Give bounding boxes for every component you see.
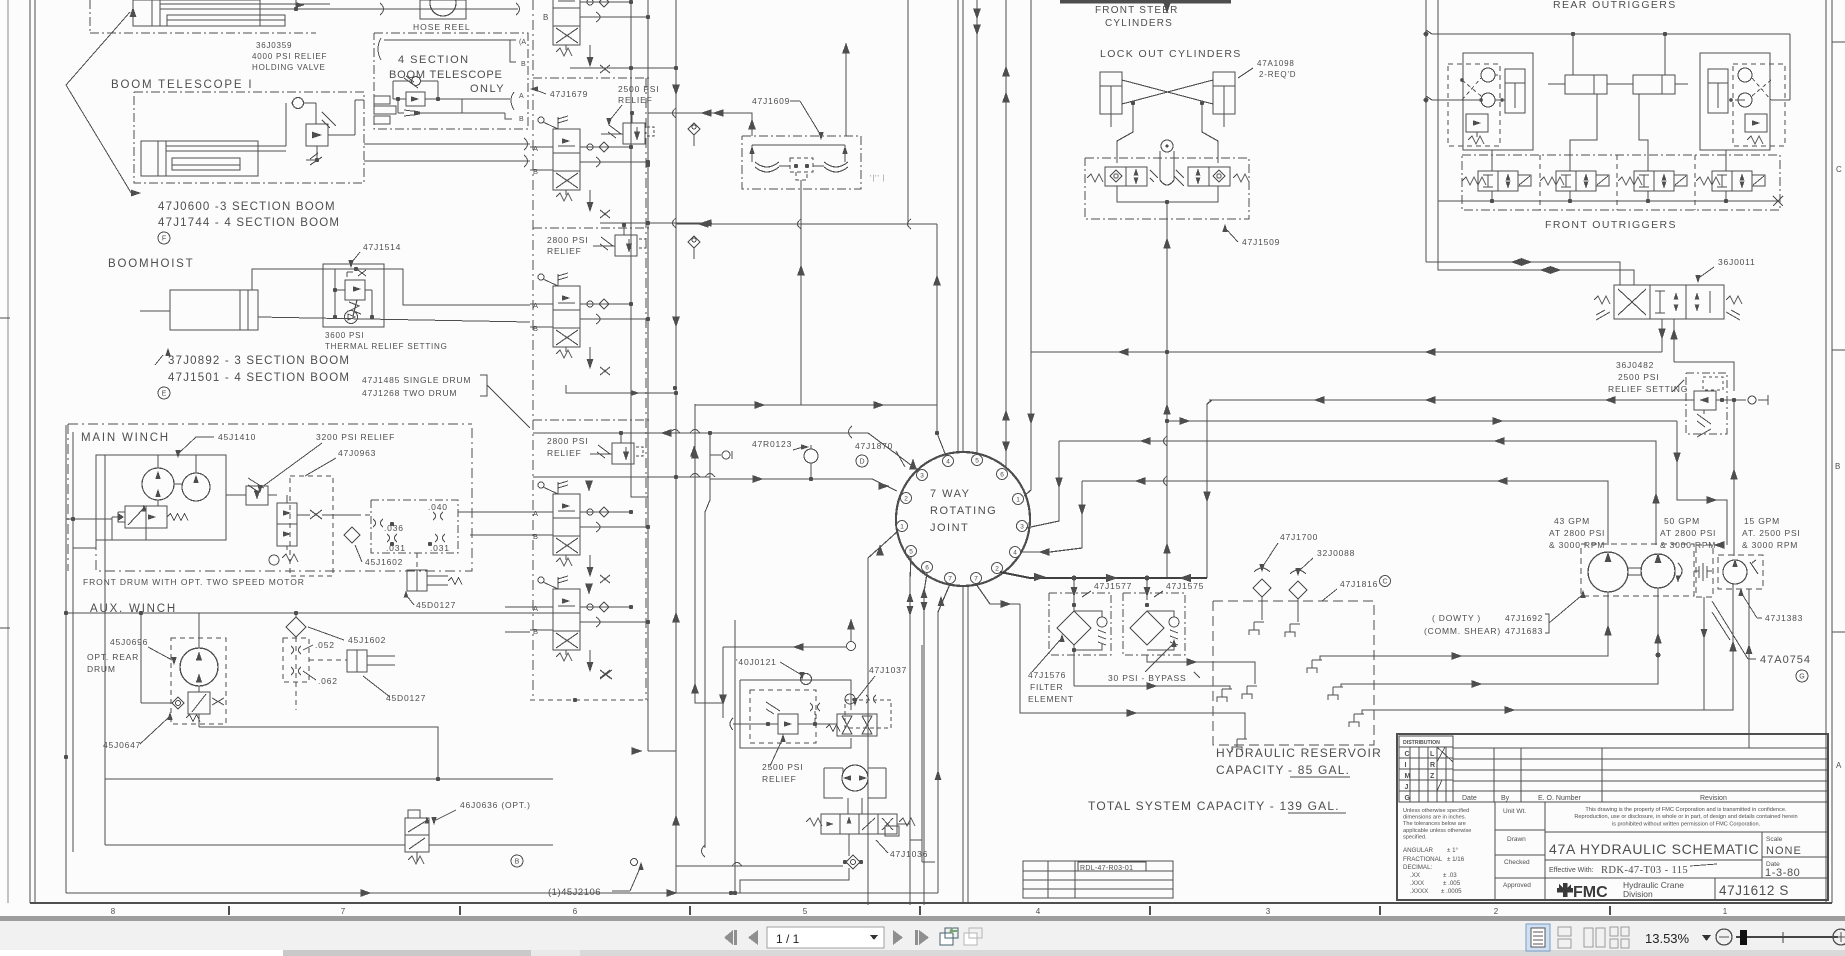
orifice box	[371, 500, 458, 553]
svg-text:6: 6	[1000, 472, 1004, 479]
dashed box relief	[750, 690, 816, 743]
svg-text:G: G	[1799, 674, 1804, 681]
36J0011 drop b	[1673, 319, 1675, 352]
left bus x73	[72, 432, 74, 852]
svg-text:FRACTIONAL: FRACTIONAL	[1403, 856, 1443, 863]
svg-text:Effective With:: Effective With:	[1549, 867, 1594, 874]
svg-text:.052: .052	[315, 640, 335, 650]
arrows on column	[690, 446, 698, 457]
svg-text:A: A	[1836, 761, 1842, 770]
svg-text:3: 3	[1020, 524, 1024, 531]
outrigger valve 2	[1540, 177, 1564, 185]
holding valve assembly R	[1700, 53, 1770, 150]
svg-text:5: 5	[803, 907, 808, 916]
prev page button	[748, 930, 758, 945]
svg-text:.XXX: .XXX	[1410, 880, 1424, 887]
svg-text:45J0647: 45J0647	[103, 740, 141, 750]
retracted telescope cylinder (top, cut off)	[133, 0, 260, 26]
bottom manifold	[1117, 186, 1218, 202]
svg-text:I: I	[1405, 762, 1407, 769]
svg-text:C: C	[1405, 751, 1410, 758]
lockout valve L	[1105, 167, 1126, 186]
svg-text:NONE: NONE	[1766, 845, 1802, 857]
rear outrigger cylinder 2	[1633, 75, 1675, 94]
joint port 4	[943, 456, 954, 467]
svg-text:1: 1	[900, 524, 904, 531]
tandem pump box	[1581, 544, 1694, 596]
reference table RDL-47-R03-01	[1023, 861, 1173, 898]
valve bank 5 (aux winch)	[538, 577, 544, 583]
svg-text:DISTRIBUTION: DISTRIBUTION	[1403, 740, 1440, 746]
bus x705	[704, 512, 706, 848]
suction 3	[1374, 584, 1733, 710]
svg-text:2800 PSI: 2800 PSI	[547, 436, 588, 446]
svg-text:4: 4	[946, 459, 950, 466]
svg-text:(1)45J2106: (1)45J2106	[548, 887, 601, 898]
svg-text:43 GPM: 43 GPM	[1554, 516, 1590, 526]
svg-text:RELIEF: RELIEF	[547, 448, 582, 458]
front steer cylinders remnant	[1060, 0, 1231, 4]
svg-text:B: B	[1835, 462, 1840, 471]
svg-text:The tolerances below are: The tolerances below are	[1403, 821, 1466, 827]
joint port 5	[972, 455, 983, 466]
main winch motor 2	[182, 473, 210, 501]
svg-text:RELIEF: RELIEF	[618, 95, 653, 105]
return wire y352	[1167, 351, 1662, 353]
pump3 drain	[1748, 589, 1750, 748]
svg-text:B: B	[543, 13, 548, 22]
test port	[722, 451, 730, 459]
wire main winch to bank4 A	[458, 511, 530, 513]
svg-text:& 3000 RPM: & 3000 RPM	[1742, 540, 1798, 550]
svg-text:B: B	[533, 532, 538, 541]
svg-text:dimensions are in inches.: dimensions are in inches.	[1403, 815, 1467, 821]
svg-text:MAIN WINCH: MAIN WINCH	[81, 432, 170, 444]
svg-text:2-REQ'D: 2-REQ'D	[1259, 70, 1296, 79]
wire y400	[1209, 399, 1694, 401]
svg-text:1: 1	[1016, 497, 1020, 504]
svg-text:BOOM TELESCOPE I: BOOM TELESCOPE I	[111, 79, 253, 91]
property statement	[1545, 831, 1828, 833]
wire into 47J1609	[712, 113, 752, 136]
wire main winch to bank4 B	[470, 534, 530, 536]
svg-text:JOINT: JOINT	[930, 522, 969, 534]
dash-dot box top telescope	[90, 32, 316, 34]
svg-text:DECIMAL:: DECIMAL:	[1403, 864, 1433, 871]
X symbol	[310, 510, 322, 519]
36J0482 dash box	[1686, 373, 1727, 434]
aux motor dashed box	[171, 638, 226, 724]
wire y433	[533, 432, 710, 434]
3200 psi relief valve	[246, 486, 268, 505]
valve bank 4 (main winch)	[538, 482, 544, 488]
outrigger valve 3	[1618, 177, 1642, 185]
svg-text:E: E	[162, 391, 167, 398]
lockout cylinder L	[1100, 72, 1122, 114]
wire port4 stub	[1021, 551, 1050, 553]
45J0647 pilot feed	[140, 613, 142, 703]
svg-text:2: 2	[1494, 907, 1499, 916]
joint drop x963	[962, 586, 964, 903]
svg-text:ROTATING: ROTATING	[930, 505, 997, 517]
reservoir box	[1213, 601, 1374, 745]
svg-text:Scale: Scale	[1766, 836, 1783, 843]
left margin zone tick	[0, 317, 10, 319]
svg-text:.031: .031	[386, 543, 406, 553]
return bus y686	[1074, 685, 1230, 687]
svg-text:Division: Division	[1623, 889, 1653, 899]
suction 2	[1374, 588, 1658, 684]
holding valve assembly L	[1463, 53, 1533, 150]
svg-text:FRONT STEER: FRONT STEER	[1095, 5, 1179, 16]
svg-text:5: 5	[909, 549, 913, 556]
joint port 1	[897, 521, 908, 532]
svg-text:2: 2	[904, 496, 908, 503]
circled B	[511, 855, 523, 867]
svg-text:47R0123: 47R0123	[752, 439, 792, 449]
svg-text:Unit Wt.: Unit Wt.	[1503, 808, 1526, 815]
rotating joint circle	[896, 452, 1030, 586]
svg-text:A: A	[533, 144, 538, 153]
joint feed x1031	[1024, 0, 1031, 496]
svg-text:45J1410: 45J1410	[218, 432, 256, 442]
svg-text:& 3000 RPM: & 3000 RPM	[1549, 540, 1605, 550]
outrigger bus top	[1426, 30, 1790, 34]
thermal relief valve	[345, 280, 365, 300]
left bus x105	[104, 455, 106, 845]
joint port 6	[997, 469, 1008, 480]
suction 1	[1374, 592, 1608, 656]
page display mode icons	[1526, 924, 1550, 951]
svg-text:47A0754: 47A0754	[1760, 654, 1811, 666]
svg-text:( DOWTY ): ( DOWTY )	[1432, 613, 1481, 623]
outrigger valve 4	[1696, 177, 1720, 185]
svg-text:2500 PSI: 2500 PSI	[618, 84, 659, 94]
svg-text:47J1383: 47J1383	[1765, 613, 1803, 623]
svg-text:47J0600 -3 SECTION BOOM: 47J0600 -3 SECTION BOOM	[158, 201, 336, 213]
aux winch return wire	[199, 727, 438, 779]
pump 15gpm	[1723, 560, 1747, 584]
36J0011 drop a	[1661, 319, 1663, 352]
40J0121 check ball	[801, 674, 812, 685]
svg-text:47J1870: 47J1870	[855, 441, 893, 451]
2800 psi relief valve	[615, 235, 637, 256]
FMC logo	[1557, 883, 1573, 897]
title block	[1397, 734, 1828, 900]
column bus x648	[647, 0, 649, 751]
svg-text:C: C	[1382, 579, 1387, 586]
svg-text:BOOMHOIST: BOOMHOIST	[108, 258, 194, 270]
case drain	[1703, 597, 1705, 710]
cross wire 2	[1122, 80, 1213, 104]
svg-text:applicable unless otherwise: applicable unless otherwise	[1403, 828, 1471, 834]
45J0647 valve	[188, 692, 210, 714]
vertical x908	[907, 0, 909, 224]
wires from bus2	[1462, 99, 1481, 101]
joint port 5	[906, 546, 917, 557]
pump coupling box	[1696, 545, 1713, 597]
svg-text:FMC: FMC	[1573, 884, 1608, 901]
svg-text:A: A	[533, 509, 538, 518]
svg-text:± 1/16: ± 1/16	[1447, 856, 1465, 863]
lockout valve R	[1188, 167, 1209, 186]
svg-text:M: M	[1405, 773, 1411, 780]
svg-text:HYDRAULIC RESERVOIR: HYDRAULIC RESERVOIR	[1216, 746, 1382, 760]
svg-text:B: B	[533, 627, 538, 636]
wire y779	[105, 778, 553, 780]
riser x1167 lower	[1166, 352, 1168, 578]
svg-text:AT 2800 PSI: AT 2800 PSI	[1660, 528, 1716, 538]
wire y647	[723, 646, 846, 648]
svg-text:47J1509: 47J1509	[1242, 237, 1280, 247]
wire to joint port 2	[710, 479, 897, 491]
svg-text:47J1037: 47J1037	[869, 665, 907, 675]
svg-text:This drawing is the property o: This drawing is the property of FMC Corp…	[1585, 807, 1787, 813]
svg-text:R: R	[1430, 762, 1435, 769]
svg-text:C: C	[1836, 165, 1842, 174]
outrigger feed x1438	[1437, 0, 1439, 201]
pump 15gpm box	[1718, 555, 1763, 589]
svg-text:.040: .040	[428, 502, 448, 512]
svg-text:47J1679: 47J1679	[550, 89, 588, 99]
svg-text:ONLY: ONLY	[470, 83, 505, 95]
svg-text:2800 PSI: 2800 PSI	[547, 235, 588, 245]
svg-text:specified.: specified.	[1403, 834, 1427, 840]
lower column links	[675, 822, 677, 893]
svg-text:± 1°: ± 1°	[1447, 847, 1459, 854]
below valve to bottom bus	[848, 834, 850, 856]
svg-text:FRONT OUTRIGGERS: FRONT OUTRIGGERS	[1545, 219, 1677, 231]
svg-text:ANGULAR: ANGULAR	[1403, 847, 1433, 854]
svg-text:B: B	[533, 167, 538, 176]
4-section dash box	[374, 33, 528, 129]
column bus x695	[694, 404, 696, 696]
MAIN WINCH outer dash-dot box	[68, 423, 472, 425]
rear outrigger cylinder 1	[1565, 75, 1607, 94]
svg-text:FILTER: FILTER	[1030, 682, 1063, 692]
brake release solenoid valve	[125, 506, 167, 528]
joint drop x924	[924, 573, 927, 905]
svg-text:45J1602: 45J1602	[365, 557, 403, 567]
svg-text:45D0127: 45D0127	[416, 600, 456, 610]
svg-text:Z: Z	[1430, 773, 1435, 780]
svg-text:47J1609: 47J1609	[752, 96, 790, 106]
wire y405	[695, 404, 937, 406]
svg-text:47J1577: 47J1577	[1094, 581, 1132, 591]
svg-text:D: D	[859, 459, 864, 466]
svg-text:8: 8	[111, 907, 116, 916]
dash-dot box boom telescope	[134, 92, 364, 183]
left bus x66	[65, 425, 67, 893]
joint drop x968	[967, 586, 969, 903]
holding valve on top cylinder	[295, 0, 297, 9]
wire to bank1 B	[364, 160, 530, 162]
tolerance block	[1494, 802, 1496, 900]
svg-text:7: 7	[974, 576, 978, 583]
svg-text:Approved: Approved	[1503, 882, 1531, 889]
zoom in	[1833, 929, 1845, 945]
svg-text:Date: Date	[1462, 795, 1477, 802]
wire to 36J0011 b	[1438, 201, 1596, 270]
boom telescope cylinder	[141, 141, 258, 176]
svg-text:46J0636 (OPT.): 46J0636 (OPT.)	[460, 800, 531, 810]
cross wire 1	[1122, 80, 1213, 104]
test port	[710, 454, 721, 456]
svg-text:.XXXX: .XXXX	[1410, 888, 1428, 895]
joint feed x963	[962, 0, 964, 452]
svg-text:37J0892 - 3 SECTION BOOM: 37J0892 - 3 SECTION BOOM	[168, 355, 350, 367]
svg-text:E. O. Number: E. O. Number	[1538, 795, 1581, 802]
svg-text:.062: .062	[318, 676, 338, 686]
svg-text:is prohibited without written: is prohibited without written permission…	[1612, 821, 1761, 827]
svg-text:30 PSI - BYPASS: 30 PSI - BYPASS	[1108, 673, 1186, 683]
svg-text:AT. 2500 PSI: AT. 2500 PSI	[1742, 528, 1801, 538]
45J1602 check	[344, 527, 360, 543]
pilot plunger	[1161, 140, 1173, 152]
svg-text:47J1816: 47J1816	[1340, 579, 1378, 589]
4-sect valve	[412, 77, 421, 86]
filter 47J1575	[1146, 578, 1148, 600]
svg-text:45D0127: 45D0127	[386, 693, 426, 703]
svg-text:B: B	[515, 859, 520, 866]
svg-text:47J1683: 47J1683	[1505, 626, 1543, 636]
risers valve to assemblies	[1491, 150, 1493, 171]
filter out wire	[1147, 655, 1198, 662]
wire to bank1 A	[364, 143, 530, 145]
valve bank 3 (boomhoist)	[538, 274, 544, 280]
line to valve bank with breaks	[345, 8, 518, 10]
leader arrow big pointer	[66, 12, 133, 196]
svg-text:36J0359: 36J0359	[256, 41, 292, 50]
joint port 7	[945, 573, 956, 584]
svg-text:47J1514: 47J1514	[363, 242, 401, 252]
last page button	[915, 930, 918, 945]
svg-text:L: L	[1430, 751, 1435, 758]
47J1037 servo valve	[837, 714, 877, 736]
aux winch motor	[180, 648, 218, 686]
wire port3 riser	[1026, 441, 1059, 528]
joint feed x1006	[1005, 0, 1007, 468]
46J0636 valve	[405, 818, 429, 852]
svg-text:47J1268 TWO DRUM: 47J1268 TWO DRUM	[362, 388, 457, 398]
revision header rows	[1453, 747, 1828, 749]
wire to bank5 B	[505, 631, 530, 633]
drawing sheet border	[7, 0, 9, 903]
svg-text:A: A	[519, 93, 524, 100]
svg-text:± .0005: ± .0005	[1441, 888, 1462, 895]
svg-text:6: 6	[573, 907, 578, 916]
aux feed bus	[66, 612, 560, 614]
hose reel	[420, 0, 466, 19]
svg-text:LOCK OUT CYLINDERS: LOCK OUT CYLINDERS	[1100, 48, 1242, 60]
svg-text:RELIEF SETTING: RELIEF SETTING	[1608, 384, 1688, 394]
svg-text:RDL-47-R03-01: RDL-47-R03-01	[1080, 865, 1133, 872]
svg-text:47J1501 - 4 SECTION BOOM: 47J1501 - 4 SECTION BOOM	[168, 372, 350, 384]
riser x1207	[1207, 400, 1212, 578]
boomhoist cylinder	[170, 290, 258, 330]
relief valve	[306, 124, 328, 146]
svg-text:DRUM: DRUM	[87, 664, 116, 674]
wire boomhoist B	[258, 317, 530, 322]
47J1609 dash box	[742, 136, 861, 189]
svg-text:7 WAY: 7 WAY	[930, 488, 971, 500]
svg-text:± .005: ± .005	[1443, 880, 1461, 887]
strainer 1	[1253, 579, 1271, 597]
svg-text:47J1485 SINGLE DRUM: 47J1485 SINGLE DRUM	[362, 375, 471, 385]
column bus x631	[630, 0, 632, 490]
valve column right dash border	[645, 78, 647, 700]
svg-text:4 SECTION: 4 SECTION	[398, 54, 470, 66]
svg-text:J: J	[1405, 784, 1409, 791]
svg-text:13.53%: 13.53%	[1645, 931, 1690, 946]
svg-text:Drawn: Drawn	[1507, 836, 1526, 843]
svg-text:B: B	[519, 116, 524, 123]
outer solid box	[740, 680, 851, 710]
joint port 2	[901, 493, 912, 504]
svg-text:2500 PSI: 2500 PSI	[1618, 372, 1659, 382]
svg-text:HOSE REEL: HOSE REEL	[413, 22, 471, 32]
svg-text:3: 3	[920, 473, 924, 480]
47J1036 return wire	[676, 865, 843, 867]
wire to joint port 3	[710, 433, 919, 471]
bus x735	[734, 620, 736, 893]
joint drop x938	[938, 584, 950, 893]
svg-text:(COMM. SHEAR): (COMM. SHEAR)	[1424, 626, 1501, 636]
svg-text:2: 2	[995, 566, 999, 573]
next page button	[893, 930, 903, 945]
aux 45D0127 cylinder	[347, 650, 367, 672]
svg-text:5: 5	[975, 458, 979, 465]
lockout cylinder R	[1213, 72, 1235, 114]
wire x846	[845, 43, 847, 136]
outrigger cylinder L	[1505, 69, 1525, 113]
outrigger bus 2	[1426, 96, 1462, 100]
zoom slider	[1736, 936, 1838, 938]
pump 43gpm	[1588, 552, 1628, 592]
svg-text:FRONT DRUM WITH OPT. TWO: FRONT DRUM WITH OPT. TWO SPEED MOTOR	[83, 577, 305, 587]
svg-text:4: 4	[1036, 907, 1041, 916]
main winch motor 1	[142, 468, 174, 500]
wire y421	[1167, 420, 1677, 422]
36J0011 valve body	[1614, 285, 1724, 319]
svg-text:6: 6	[925, 565, 929, 572]
joint port 7	[971, 573, 982, 584]
svg-text:15 GPM: 15 GPM	[1744, 516, 1780, 526]
svg-text:7: 7	[341, 907, 346, 916]
svg-text:A: A	[533, 301, 538, 310]
check valve circle	[293, 98, 304, 109]
feedback loop bank3	[566, 385, 676, 393]
riser x937 upper to port4	[937, 224, 946, 456]
pressure gauge	[804, 449, 818, 463]
cyl1 rod wire	[1570, 94, 1597, 166]
svg-text:47J1575: 47J1575	[1166, 581, 1204, 591]
return stubs left	[1217, 689, 1232, 702]
lockout supply riser	[1166, 222, 1168, 352]
wire boomhoist A	[252, 269, 530, 305]
svg-text:OPT. REAR: OPT. REAR	[87, 652, 139, 662]
svg-text:45J1602: 45J1602	[348, 635, 386, 645]
bus x922	[921, 645, 923, 862]
svg-text:1: 1	[1723, 907, 1728, 916]
2500 psi relief valve	[623, 123, 645, 144]
swing motor	[842, 765, 868, 791]
svg-text:CYLINDERS: CYLINDERS	[1105, 18, 1173, 29]
svg-text:B: B	[521, 61, 526, 68]
svg-text:47A1098: 47A1098	[1257, 59, 1295, 68]
2500 psi relief lowermid	[778, 714, 798, 734]
PDF viewer toolbar	[0, 916, 1845, 921]
